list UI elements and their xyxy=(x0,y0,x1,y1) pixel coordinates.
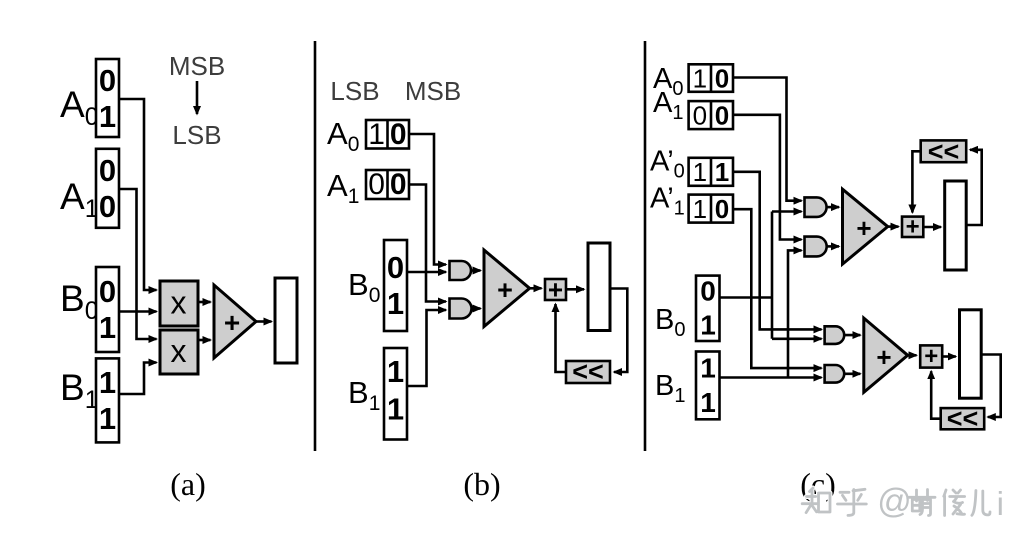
svg-text:B0: B0 xyxy=(655,304,685,341)
svg-text:1: 1 xyxy=(387,354,404,389)
arrow MSB to LSB xyxy=(196,81,199,114)
shifter << (panel c lower) xyxy=(941,404,985,434)
register A0 value 01 xyxy=(96,59,119,137)
svg-text:B0: B0 xyxy=(348,267,380,307)
svg-text:1: 1 xyxy=(99,401,116,436)
svg-text:<<: << xyxy=(947,404,979,434)
svg-text:B1: B1 xyxy=(60,367,99,414)
wire adder to plus box (panel c upper) xyxy=(888,225,899,228)
output register (panel a) xyxy=(275,278,297,363)
wire A0 to multiplier X1 xyxy=(119,99,157,290)
svg-text:<<: << xyxy=(928,137,960,167)
wire B0 to multiplier X1 xyxy=(119,310,157,313)
svg-text:0: 0 xyxy=(715,100,729,130)
shifter << (panel b) xyxy=(566,357,610,387)
AND gate G2 (panel c) xyxy=(805,237,827,257)
wire B0 branch to G3 xyxy=(772,337,822,340)
wire G1 to adder (panel c upper) xyxy=(826,206,839,209)
wire shifter to plus box xyxy=(556,304,567,372)
wire register to shifter (panel c upper) xyxy=(966,150,982,225)
shifter << (panel c upper) xyxy=(921,137,967,167)
svg-text:0: 0 xyxy=(390,168,407,201)
svg-text:<<: << xyxy=(572,357,604,387)
AND gate G4 (panel c) xyxy=(825,365,845,383)
wire A1 to AND gate G2 (panel c) xyxy=(733,115,802,240)
register B1 value 11 (panel b) xyxy=(384,348,407,440)
wire register to shifter (panel c lower) xyxy=(981,355,1001,418)
wire A0 to AND gate G1 (panel c) xyxy=(733,78,802,201)
accumulator plus box (panel c upper) xyxy=(902,214,923,241)
AND gate G1 (panel b) xyxy=(450,261,472,280)
wire G3 to adder (panel c lower) xyxy=(844,334,861,337)
register A'0 value 11 (panel c) xyxy=(689,157,733,187)
register B0 value 01 (panel c) xyxy=(696,276,720,342)
AND gate G3 (panel c) xyxy=(825,326,845,344)
svg-text:+: + xyxy=(497,275,513,305)
accumulator register (panel c upper) xyxy=(945,181,967,270)
wire B1 to multiplier X2 xyxy=(119,363,157,395)
svg-text:0: 0 xyxy=(99,63,116,98)
svg-text:1: 1 xyxy=(387,392,404,427)
wire plus box to register xyxy=(566,288,584,291)
svg-text:(b): (b) xyxy=(463,466,500,502)
svg-text:1: 1 xyxy=(387,286,404,321)
svg-text:+: + xyxy=(856,213,871,243)
svg-text:1: 1 xyxy=(700,310,716,341)
svg-text:(a): (a) xyxy=(170,466,206,502)
watermark zhihu halo xyxy=(802,488,990,516)
svg-text:1: 1 xyxy=(99,310,116,345)
register B0 value 01 (panel b) xyxy=(384,240,407,331)
svg-text:+: + xyxy=(876,342,891,372)
svg-text:A’0: A’0 xyxy=(650,146,685,183)
wire A1 to AND gate G2 xyxy=(409,185,446,302)
svg-text:1: 1 xyxy=(693,194,707,224)
wire A'0 to AND gate G3 (panel c) xyxy=(733,172,822,330)
accumulator plus box (panel b) xyxy=(545,275,566,305)
wire G2 to adder xyxy=(472,307,481,310)
wire B1 to AND gate G2 xyxy=(407,310,446,386)
svg-text:1: 1 xyxy=(99,365,116,400)
svg-text:0: 0 xyxy=(715,63,729,93)
wire plus box to register (panel c lower) xyxy=(942,355,956,358)
svg-text:0: 0 xyxy=(387,250,404,285)
wire X1 to adder xyxy=(198,301,211,304)
svg-text:0: 0 xyxy=(700,276,716,307)
wire G1 to adder xyxy=(471,269,481,272)
wire B1 trunk to G4 xyxy=(720,376,822,379)
register B1 value 11 (panel c) xyxy=(696,352,720,420)
svg-text:+: + xyxy=(224,307,240,338)
svg-text:1: 1 xyxy=(693,157,707,187)
accumulator plus box (panel c lower) xyxy=(920,343,942,370)
svg-text:0: 0 xyxy=(99,189,116,224)
wire B0 branch to G1 xyxy=(772,210,802,213)
wire shifter to plus box (panel c lower) xyxy=(931,371,941,419)
wire adder to accumulator plus box xyxy=(530,287,542,290)
svg-text:+: + xyxy=(906,214,920,241)
wire plus box to register (panel c upper) xyxy=(923,226,941,229)
wire X2 to adder xyxy=(198,339,211,342)
svg-text:A0: A0 xyxy=(60,84,99,131)
wire A0 to AND gate G1 xyxy=(409,134,446,265)
svg-text:i: i xyxy=(997,485,1004,522)
wire B1 branch to G2 xyxy=(788,250,802,377)
accumulator register (panel b) xyxy=(588,243,610,331)
svg-text:+: + xyxy=(548,275,563,305)
multiplier X1 xyxy=(160,281,198,326)
svg-text:0: 0 xyxy=(715,194,729,224)
svg-text:LSB: LSB xyxy=(330,76,379,106)
svg-text:0: 0 xyxy=(693,100,707,130)
svg-text:0: 0 xyxy=(99,153,116,188)
adder U1 (panel a) xyxy=(214,285,256,358)
register A0 value 10 (panel b) xyxy=(366,118,409,151)
register B1 value 11 xyxy=(96,358,119,442)
adder U2 (panel c lower) xyxy=(864,318,908,392)
wire adder to output register xyxy=(256,320,272,323)
multiplier X2 xyxy=(160,330,198,374)
AND gate G1 (panel c) xyxy=(805,197,827,217)
register A0 value 10 (panel c) xyxy=(689,63,733,93)
svg-text:1: 1 xyxy=(700,353,716,384)
svg-text:x: x xyxy=(171,285,187,321)
svg-text:0: 0 xyxy=(99,274,116,309)
svg-text:A1: A1 xyxy=(60,176,99,223)
svg-text:0: 0 xyxy=(390,118,407,151)
svg-text:1: 1 xyxy=(99,99,116,134)
svg-text:B1: B1 xyxy=(655,370,685,407)
register A1 value 00 (panel c) xyxy=(689,100,733,130)
wire B0 to AND gate G1 xyxy=(407,271,446,274)
register A'1 value 10 (panel c) xyxy=(689,194,733,224)
accumulator register (panel c lower) xyxy=(960,310,982,398)
svg-text:1: 1 xyxy=(715,157,729,187)
wire G2 to adder (panel c upper) xyxy=(826,245,839,248)
svg-text:@: @ xyxy=(877,483,912,521)
wire B0 vertical branch xyxy=(771,212,774,339)
wire shifter to plus box (panel c upper) xyxy=(912,151,920,212)
wire G4 to adder (panel c lower) xyxy=(844,372,861,375)
register A1 value 00 xyxy=(96,149,119,228)
register A1 value 00 (panel b) xyxy=(366,168,409,201)
wire register to shifter xyxy=(610,289,627,373)
svg-text:B1: B1 xyxy=(348,375,380,415)
svg-text:A0: A0 xyxy=(327,116,359,156)
AND gate G2 (panel b) xyxy=(450,299,472,319)
svg-text:B0: B0 xyxy=(60,278,99,325)
svg-text:MSB: MSB xyxy=(169,51,225,81)
panel divider 2 xyxy=(644,41,647,451)
watermark zhihu glyph strokes xyxy=(802,488,990,516)
svg-text:MSB: MSB xyxy=(405,76,461,106)
svg-text:0: 0 xyxy=(368,168,385,201)
adder U1 (panel c upper) xyxy=(843,189,888,264)
svg-text:1: 1 xyxy=(368,118,385,151)
svg-text:+: + xyxy=(924,343,938,370)
wire A'1 to AND gate G4 (panel c) xyxy=(733,209,822,368)
panel divider 1 xyxy=(314,41,317,451)
svg-text:1: 1 xyxy=(700,387,716,418)
wire adder to plus box (panel c lower) xyxy=(908,354,917,357)
svg-text:LSB: LSB xyxy=(172,120,221,150)
adder U1 (panel b) xyxy=(484,250,530,327)
svg-text:A’1: A’1 xyxy=(650,183,685,220)
svg-text:A1: A1 xyxy=(327,168,359,208)
svg-text:x: x xyxy=(171,333,187,369)
svg-text:1: 1 xyxy=(693,63,707,93)
register B0 value 01 xyxy=(96,267,119,352)
wire B0 trunk to junction xyxy=(720,296,773,299)
wire A1 to multiplier X2 xyxy=(119,189,157,339)
